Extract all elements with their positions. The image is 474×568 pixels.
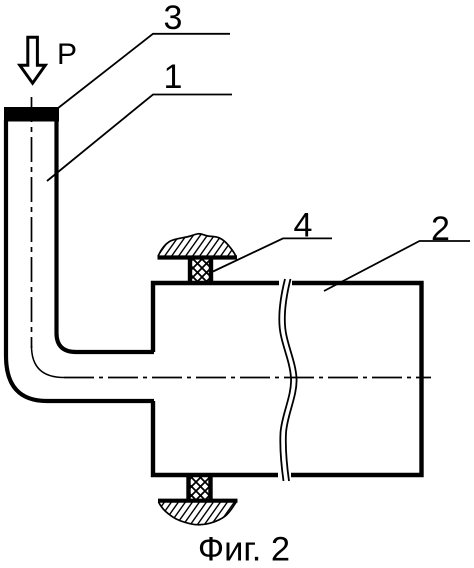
svg-text:Фиг. 2: Фиг. 2 bbox=[198, 531, 290, 568]
svg-text:2: 2 bbox=[431, 210, 450, 248]
svg-text:Р: Р bbox=[57, 38, 77, 71]
svg-text:4: 4 bbox=[294, 207, 313, 245]
svg-text:3: 3 bbox=[164, 0, 183, 37]
svg-text:1: 1 bbox=[164, 58, 183, 96]
